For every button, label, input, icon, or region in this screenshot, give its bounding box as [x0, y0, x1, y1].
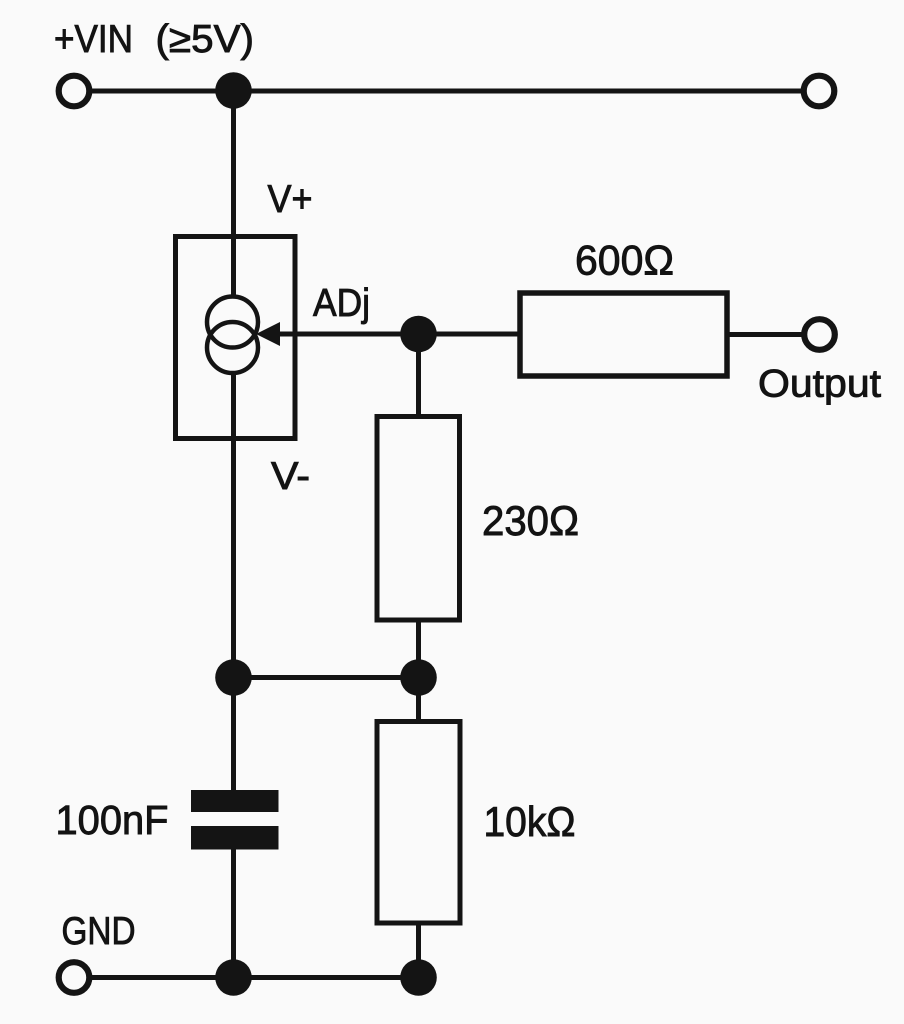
- wire bottom rail: [90, 975, 419, 980]
- current source symbol circle lower: [207, 322, 258, 373]
- svg-text:+VIN: +VIN: [54, 18, 133, 61]
- wire junction A to 600 ohm resistor: [419, 332, 521, 337]
- svg-text:Output: Output: [758, 363, 881, 406]
- junction middle left: [215, 659, 252, 696]
- terminal +VIN: [59, 76, 90, 107]
- wire capacitor to bottom rail: [231, 849, 236, 978]
- wire 600 ohm resistor to output terminal: [726, 332, 803, 337]
- resistor 600 ohm: [520, 293, 727, 376]
- junction top rail: [215, 72, 252, 109]
- capacitor C1 plate top: [191, 790, 279, 812]
- terminal Output: [804, 319, 835, 350]
- junction node A (ADj): [400, 316, 437, 353]
- svg-text:(≥5V): (≥5V): [156, 18, 255, 61]
- wire middle horizontal: [234, 675, 419, 680]
- wire junction A down to 230 ohm resistor: [416, 334, 421, 417]
- svg-text:V-: V-: [271, 455, 310, 498]
- current source symbol circle upper: [207, 297, 258, 348]
- capacitor C1 plate bottom: [191, 826, 279, 850]
- svg-text:100nF: 100nF: [56, 797, 169, 843]
- wire top rail: [90, 89, 803, 94]
- wire 10k resistor to bottom rail: [416, 922, 421, 978]
- junction bottom right: [400, 959, 437, 996]
- resistor 230 ohm: [377, 417, 460, 621]
- regulator U1 box: [176, 237, 296, 439]
- junction bottom left: [215, 959, 252, 996]
- svg-text:GND: GND: [62, 910, 136, 953]
- ADj arrowhead: [256, 322, 280, 346]
- junction middle right: [400, 659, 437, 696]
- terminal top right: [804, 76, 835, 107]
- wire middle junction to 10k resistor: [416, 678, 421, 723]
- wire V+ from top rail into regulator box: [231, 91, 236, 297]
- wire ADj horizontal: [276, 332, 419, 337]
- svg-text:600Ω: 600Ω: [575, 237, 674, 284]
- wire V- from current-source to middle junction: [231, 373, 236, 791]
- wire 230 ohm resistor to middle junction: [416, 619, 421, 679]
- svg-text:V+: V+: [268, 178, 313, 221]
- resistor 10k ohm: [377, 722, 460, 924]
- terminal GND: [59, 962, 90, 993]
- svg-text:10kΩ: 10kΩ: [484, 798, 576, 845]
- svg-text:ADj: ADj: [313, 282, 370, 325]
- svg-text:230Ω: 230Ω: [482, 497, 579, 544]
